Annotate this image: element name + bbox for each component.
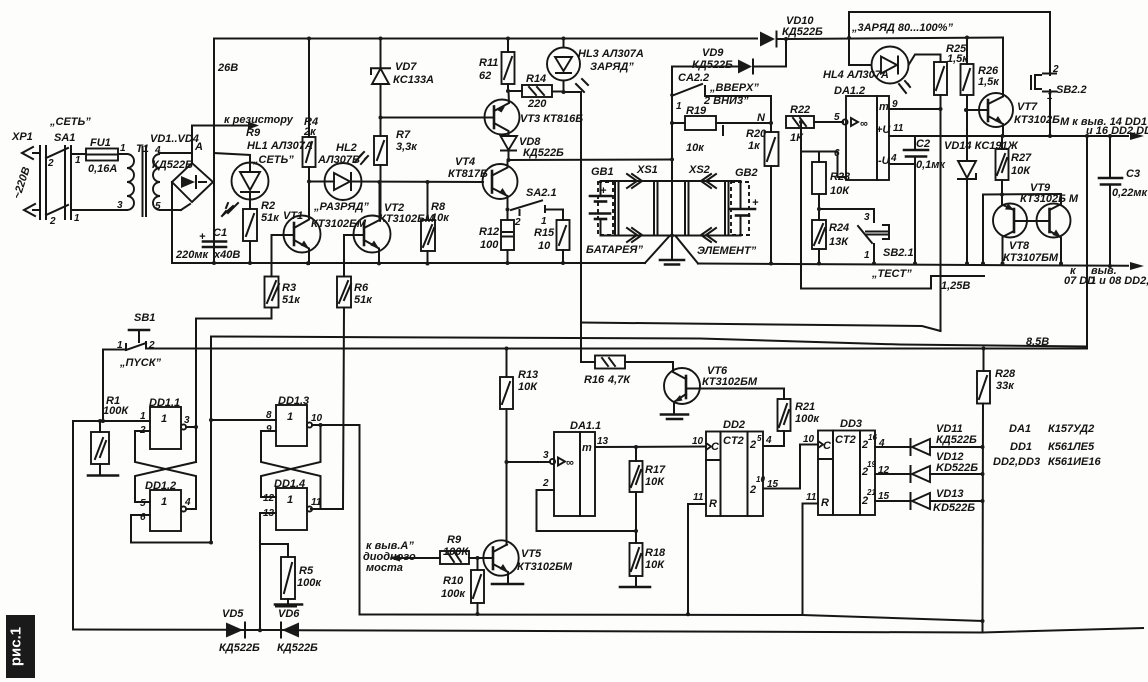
wire left vertical to bottom rail — [72, 421, 74, 630]
svg-text:„3APЯД 80...100%”: „3APЯД 80...100%” — [851, 22, 953, 34]
svg-text:0,1мк: 0,1мк — [916, 159, 946, 171]
svg-text:R5: R5 — [299, 565, 314, 577]
svg-text:10к: 10к — [686, 142, 705, 154]
svg-text:51к: 51к — [282, 294, 301, 306]
pin 4 wire — [889, 153, 915, 164]
resistor R9 100К — [440, 534, 493, 564]
resistor R23 10К — [812, 152, 850, 221]
svg-text:CA2.2: CA2.2 — [678, 72, 709, 84]
svg-text:11: 11 — [693, 492, 704, 503]
wire supply drop x1087 — [1086, 136, 1088, 348]
wire R23 link from pin5 line — [800, 122, 802, 289]
wire DA1.1 pin3 input — [507, 461, 551, 463]
svg-text:DA1: DA1 — [1009, 423, 1031, 435]
wire DA1.1 pin13 output to DD2 — [595, 446, 706, 449]
wire VD8 node to battery block — [509, 159, 673, 162]
resistor R18 10К — [620, 531, 666, 587]
op-amp DA1.1 — [542, 420, 609, 516]
resistor R5 100к — [260, 544, 322, 605]
svg-text:1,25B: 1,25B — [941, 280, 970, 292]
svg-text:1: 1 — [74, 213, 80, 224]
transistor VT7 КТ3102БМ — [967, 38, 1060, 137]
resistor R8 10к — [421, 182, 450, 264]
svg-text:1: 1 — [161, 413, 167, 425]
svg-text:R28: R28 — [995, 368, 1016, 380]
zener VD14 КС191Ж — [944, 140, 1019, 264]
gate DD1.1 — [139, 397, 196, 449]
svg-text:2: 2 — [749, 439, 756, 451]
connector XS2 — [685, 164, 729, 242]
label ЗАРЯД 80...100% box — [849, 12, 1050, 70]
resistor R16 4,7К — [581, 323, 686, 387]
svg-text:моcтa: моcтa — [366, 562, 403, 574]
resistor R17 10К — [630, 447, 667, 531]
LED HL1 АЛ307А "СЕТЬ" — [214, 140, 313, 216]
resistor R11 62 — [479, 39, 515, 92]
svg-text:26B: 26B — [217, 62, 238, 74]
svg-text:VT3 КТ816Б: VT3 КТ816Б — [520, 113, 583, 125]
svg-text:21: 21 — [866, 488, 876, 497]
svg-text:1: 1 — [287, 494, 293, 506]
svg-text:m: m — [879, 101, 889, 113]
svg-text:DD3: DD3 — [840, 418, 862, 430]
pin 9 wire — [889, 99, 941, 110]
wire DD3 R pin down — [802, 504, 804, 616]
svg-text:R14: R14 — [526, 73, 546, 85]
ground symbol battery block — [660, 236, 684, 265]
switch SA2.1 — [511, 187, 563, 228]
transistor VT2 КТ3102БМ — [344, 182, 435, 264]
svg-text:К561ЛE5: К561ЛE5 — [1048, 441, 1095, 453]
svg-text:VD7: VD7 — [395, 61, 417, 73]
svg-text:11: 11 — [806, 492, 817, 503]
connector XP1 — [11, 131, 46, 219]
svg-text:4: 4 — [765, 435, 772, 446]
svg-text:5: 5 — [834, 112, 840, 123]
svg-text:100К: 100К — [103, 405, 129, 417]
transistor VT8 КТ3107БМ — [993, 195, 1059, 265]
svg-text:FU1: FU1 — [90, 137, 111, 149]
label к выв.А диодного моста — [363, 540, 416, 574]
gate DD1.2 — [140, 480, 191, 531]
svg-text:13К: 13К — [829, 236, 849, 248]
svg-text:10К: 10К — [518, 381, 538, 393]
svg-text:9: 9 — [266, 424, 272, 435]
resistor R25 1,5к — [934, 43, 969, 109]
gate DD1.3 — [266, 395, 343, 446]
svg-text:„BBEPX”: „BBEPX” — [709, 82, 759, 94]
resistor R27 10К — [996, 136, 1033, 195]
switch SA2.2 — [670, 72, 771, 123]
ground rail top section — [172, 262, 645, 264]
pin 11 supply wire to right — [889, 123, 1144, 140]
wire TEST lower link — [801, 276, 931, 289]
svg-text:N: N — [757, 112, 766, 124]
resistor R7 3,3к — [374, 129, 418, 218]
capacitor C2 0,1м — [904, 136, 946, 171]
svg-text:VD13: VD13 — [936, 488, 964, 500]
svg-text:220мк: 220мк — [175, 249, 209, 261]
svg-text:R18: R18 — [645, 547, 666, 559]
svg-text:CT2: CT2 — [723, 435, 744, 447]
svg-text:R13: R13 — [518, 369, 538, 381]
wire DD1.3 pin9 cross-couple — [261, 431, 321, 509]
op-amp DA1.2 — [834, 85, 891, 180]
svg-text:6: 6 — [140, 512, 146, 523]
svg-text:33к: 33к — [996, 380, 1015, 392]
svg-text:R21: R21 — [795, 401, 815, 413]
wire bottom rail D — [360, 615, 983, 622]
wire R6/pin10 node to rail D drop — [343, 425, 360, 615]
svg-text:11: 11 — [893, 123, 904, 134]
svg-text:3: 3 — [117, 200, 123, 211]
svg-text:1: 1 — [75, 155, 81, 166]
svg-text:2: 2 — [47, 158, 54, 169]
svg-text:4,7К: 4,7К — [607, 374, 631, 386]
wire R1 node to DD1.1 pin1 — [73, 420, 150, 422]
svg-text:R7: R7 — [396, 129, 411, 141]
svg-text:HL3 АЛ307A: HL3 АЛ307A — [578, 48, 644, 60]
svg-text:КТ3102Б: КТ3102Б — [1014, 114, 1060, 126]
svg-text:∞: ∞ — [566, 457, 574, 469]
resistor R22 1к — [786, 104, 843, 144]
wire R13 to VT5 collector — [506, 462, 508, 545]
svg-text:10К: 10К — [1011, 165, 1031, 177]
svg-text:SB1: SB1 — [134, 312, 155, 324]
resistor R6 51к — [337, 235, 373, 509]
transistor VT5 КТ3102БМ — [483, 540, 573, 584]
svg-text:„PA3PЯД”: „PA3PЯД” — [313, 201, 369, 213]
svg-text:5: 5 — [140, 498, 146, 509]
svg-text:+U: +U — [876, 124, 891, 136]
svg-text:„ПYCК”: „ПYCК” — [119, 357, 161, 369]
svg-text:2: 2 — [49, 216, 56, 227]
connector XS1 — [615, 164, 658, 242]
svg-text:100: 100 — [480, 239, 499, 251]
svg-text:2: 2 — [514, 217, 521, 228]
svg-text:10: 10 — [756, 475, 765, 484]
svg-text:VD9: VD9 — [702, 47, 724, 59]
svg-text:2: 2 — [542, 478, 549, 489]
svg-text:КТ3102БM: КТ3102БM — [517, 561, 573, 573]
resistor R14 220 — [508, 73, 564, 110]
svg-text:XS2: XS2 — [688, 164, 710, 176]
svg-text:DA1.1: DA1.1 — [570, 420, 601, 432]
gate DD1.4 — [263, 478, 322, 530]
pushbutton SB2.1 "ТЕСТ" — [858, 209, 914, 280]
svg-text:и 16 DD2,DD: и 16 DD2,DD — [1086, 125, 1148, 137]
capacitor C3 0,22мк — [1099, 136, 1148, 266]
transistor VT6 КТ3102БМ — [661, 365, 784, 419]
wire center conductor SA2.2 pole down through connector — [671, 67, 673, 236]
svg-text:10: 10 — [538, 240, 551, 252]
svg-text:SB2.1: SB2.1 — [883, 247, 914, 259]
wire R3 link down to pin3 node — [195, 319, 197, 463]
svg-text:0,16A: 0,16A — [88, 163, 117, 175]
svg-text:„TECT”: „TECT” — [871, 268, 912, 280]
svg-text:1: 1 — [864, 250, 870, 261]
diode VD11 КД522Б — [911, 423, 983, 455]
wire pin11 link to R6 vertical — [321, 508, 344, 510]
diode VD9 КД522Б — [672, 39, 786, 74]
wire C2/pin4 to ground rail — [914, 164, 916, 264]
resistor R15 10 — [534, 220, 570, 263]
svg-text:R11: R11 — [479, 57, 498, 69]
resistor R2 51к — [243, 200, 280, 263]
svg-text:ЭЛEMEHT”: ЭЛEMEHT” — [697, 245, 757, 257]
svg-text:10: 10 — [692, 436, 704, 447]
wire bridge left corner to ground rail — [171, 182, 173, 263]
resistor R26 1,5к — [961, 38, 1001, 161]
svg-text:A: A — [194, 141, 203, 153]
svg-text:10к: 10к — [431, 212, 450, 224]
LED HL2 АЛ307В "РАЗРЯД" — [309, 142, 483, 213]
transistor VT9 КТ3102БМ — [1014, 182, 1079, 264]
wire DD1.4 pin13 chain down — [260, 513, 276, 631]
svg-text:5: 5 — [757, 434, 762, 443]
svg-text:10: 10 — [311, 413, 323, 424]
connector top bus — [601, 180, 741, 182]
svg-text:3,3к: 3,3к — [396, 141, 418, 153]
diode VD5 КД522Б — [219, 608, 260, 654]
svg-text:3: 3 — [184, 415, 190, 426]
svg-text:62: 62 — [479, 70, 491, 82]
svg-text:БATAPEЯ”: БATAPEЯ” — [586, 244, 643, 256]
svg-text:К561ИE16: К561ИE16 — [1048, 456, 1101, 468]
svg-text:3: 3 — [543, 450, 549, 461]
wire rail after VD10 — [786, 38, 1003, 40]
svg-text:-U: -U — [878, 155, 891, 167]
resistor R3 51к — [196, 235, 301, 319]
svg-text:12: 12 — [263, 493, 275, 504]
svg-text:R3: R3 — [282, 282, 296, 294]
wire reference vertical x941 — [940, 95, 942, 331]
wire slant links bus to ground rail — [645, 237, 669, 264]
svg-text:R23: R23 — [830, 171, 850, 183]
svg-text:DD2,DD3: DD2,DD3 — [993, 456, 1040, 468]
wire R23/R24/SB2.1 node — [819, 208, 874, 210]
svg-text:0,22мк: 0,22мк — [1112, 187, 1148, 199]
svg-text:4: 4 — [890, 153, 897, 164]
resistor R24 13К — [812, 220, 849, 264]
svg-text:XP1: XP1 — [11, 131, 33, 143]
wire DD1.2 pin6 loop — [131, 515, 211, 543]
svg-text:1: 1 — [140, 411, 146, 422]
svg-text:КД522Б: КД522Б — [152, 159, 193, 171]
svg-text:m: m — [582, 442, 592, 454]
wire rail E right extension — [983, 628, 1144, 633]
svg-text:10К: 10К — [830, 185, 850, 197]
svg-text:51к: 51к — [261, 212, 280, 224]
svg-text:C: C — [823, 440, 832, 452]
resistor R28 33к — [977, 349, 1016, 633]
svg-text:рис.1: рис.1 — [8, 627, 25, 666]
wire DD2 R pin down — [687, 504, 689, 614]
resistor R4 2к — [303, 39, 319, 182]
wire rail B drop x211 — [210, 337, 212, 543]
wire rail B — [211, 337, 1087, 347]
svg-text:КД522Б: КД522Б — [523, 147, 564, 159]
svg-text:DD1: DD1 — [1010, 441, 1032, 453]
svg-text:1: 1 — [287, 411, 293, 423]
svg-text:х40B: х40B — [213, 249, 240, 261]
svg-text:HL2: HL2 — [336, 142, 357, 154]
resistor R12 100 — [479, 210, 514, 264]
resistor R13 10К — [500, 349, 538, 463]
svg-text:KD522Б: KD522Б — [936, 462, 978, 474]
capacitor C1 220мк x40В — [175, 227, 240, 261]
svg-text:19: 19 — [867, 460, 876, 469]
svg-text:VT5: VT5 — [521, 548, 542, 560]
transformer T1 — [117, 143, 192, 216]
svg-text:8,5B: 8,5B — [1026, 336, 1049, 348]
svg-text:C1: C1 — [213, 227, 227, 239]
svg-text:C3: C3 — [1126, 168, 1140, 180]
svg-text:GB1: GB1 — [591, 166, 614, 178]
svg-text:100к: 100к — [297, 577, 322, 589]
svg-text:220: 220 — [527, 98, 547, 110]
svg-text:VT7: VT7 — [1017, 101, 1038, 113]
svg-text:1: 1 — [676, 101, 682, 112]
svg-text:КC133A: КC133A — [393, 74, 434, 86]
svg-text:1: 1 — [120, 143, 126, 154]
wire "к резистору R9" — [192, 114, 294, 139]
transistor VT1 КТ3102БМ — [272, 182, 367, 265]
svg-text:11: 11 — [311, 497, 322, 508]
svg-text:10К: 10К — [645, 476, 665, 488]
pushbutton SB2.2 — [1031, 64, 1087, 136]
svg-text:1: 1 — [541, 216, 547, 227]
fuse FU1 0,16A — [86, 137, 127, 175]
wire rail A (reference to 1,25V) — [581, 323, 941, 332]
svg-text:C: C — [711, 441, 720, 453]
bridge rectifier VD1..VD4 — [150, 133, 213, 202]
resistor R21 100К — [778, 389, 821, 447]
diode VD6 КД522Б — [276, 607, 318, 655]
svg-text:VT4: VT4 — [455, 156, 475, 168]
switch SA1 "СЕТЬ" — [46, 116, 127, 227]
svg-text:R24: R24 — [829, 222, 849, 234]
connector bottom bus — [601, 235, 741, 237]
diode VD10 КД522Б — [760, 15, 823, 47]
svg-text:1к: 1к — [748, 140, 761, 152]
svg-text:SB2.2: SB2.2 — [1056, 84, 1087, 96]
battery GB2 — [730, 167, 759, 235]
svg-text:1 и 08 DD2,D.: 1 и 08 DD2,D. — [1090, 275, 1148, 287]
svg-text:R27: R27 — [1011, 152, 1032, 164]
svg-text:КД522Б: КД522Б — [936, 434, 977, 446]
wire DD1.1 pin3 cross-couple — [135, 462, 196, 502]
svg-text:∞: ∞ — [860, 118, 868, 130]
pushbutton SB1 "ПУСК" — [103, 312, 211, 421]
wire rail C 8,5V — [146, 347, 1087, 349]
svg-text:КД522Б: КД522Б — [219, 642, 260, 654]
svg-text:SA2.1: SA2.1 — [526, 187, 557, 199]
svg-text:КД522Б: КД522Б — [692, 59, 733, 71]
parts list — [993, 423, 1101, 468]
svg-text:R10: R10 — [443, 575, 464, 587]
svg-text:VD14 КC191Ж: VD14 КC191Ж — [944, 140, 1019, 152]
svg-text:C2: C2 — [916, 138, 930, 150]
svg-text:8: 8 — [266, 410, 272, 421]
transistor VT4 КТ817Б — [448, 156, 518, 210]
svg-text:КД522Б: КД522Б — [277, 642, 318, 654]
svg-text:R2: R2 — [261, 200, 275, 212]
svg-text:ЗАPЯД”: ЗАPЯД” — [590, 61, 634, 73]
svg-text:SA1: SA1 — [54, 132, 75, 144]
resistor R1 100К — [88, 395, 129, 476]
counter DD2 СТ2 — [688, 419, 818, 516]
zener VD7 КС133А — [371, 39, 434, 137]
svg-text:10К: 10К — [645, 559, 665, 571]
svg-text:+: + — [752, 197, 759, 209]
LED HL3 АЛ307А "ЗАРЯД" — [547, 39, 644, 93]
svg-text:1: 1 — [161, 496, 167, 508]
svg-text:CT2: CT2 — [835, 434, 856, 446]
diode VD12 КД522Б — [911, 451, 983, 482]
svg-text:VD6: VD6 — [278, 608, 300, 620]
LED HL4 АЛ307А — [823, 38, 941, 93]
svg-text:КТ3107БM: КТ3107БM — [1003, 252, 1059, 264]
svg-text:R9: R9 — [447, 534, 462, 546]
svg-text:KD522Б: KD522Б — [933, 502, 975, 514]
wire pin8 link — [211, 419, 276, 421]
svg-text:2: 2 — [749, 484, 756, 496]
wire HL3/R14 junction to x581 vertical — [564, 92, 581, 323]
svg-text:КТ3102БM: КТ3102БM — [702, 376, 758, 388]
label 1,25В — [931, 276, 984, 292]
svg-text:13: 13 — [597, 436, 609, 447]
diode VD13 КД522Б — [911, 488, 983, 514]
svg-text:100к: 100к — [795, 413, 820, 425]
wire DD1.1 pin2 cross-couple — [135, 431, 196, 509]
svg-text:DD2: DD2 — [723, 419, 745, 431]
battery GB1 — [590, 166, 614, 235]
svg-text:4: 4 — [184, 497, 191, 508]
svg-text:R16: R16 — [584, 374, 605, 386]
wire VD7/R7 to VT3 base — [381, 117, 495, 119]
svg-text:R: R — [821, 497, 829, 509]
resistor R19 10к — [672, 105, 771, 154]
svg-text:16: 16 — [868, 433, 877, 442]
svg-text:КД522Б: КД522Б — [782, 26, 823, 38]
svg-text:R15: R15 — [534, 227, 555, 239]
wire to R9 with arrow — [389, 555, 440, 562]
resistor R20 1к — [746, 123, 779, 264]
wire DD1.3 pin10 cross-couple — [261, 425, 321, 497]
svg-text:1,5к: 1,5к — [978, 76, 1000, 88]
wire bottom rail E — [73, 630, 983, 633]
transistor VT3 КТ816Б — [485, 91, 584, 136]
svg-text:VT8: VT8 — [1009, 240, 1030, 252]
wire bridge top to rail — [191, 126, 193, 164]
svg-text:10: 10 — [803, 434, 815, 445]
svg-text:51к: 51к — [354, 294, 373, 306]
svg-text:„CETЬ”: „CETЬ” — [49, 116, 91, 128]
svg-text:VD5: VD5 — [222, 608, 244, 620]
svg-text:К157УД2: К157УД2 — [1048, 423, 1094, 435]
wire VT8/VT9 collector link — [983, 194, 1061, 264]
svg-text:XS1: XS1 — [636, 164, 658, 176]
svg-text:3: 3 — [864, 212, 870, 223]
svg-text:R22: R22 — [790, 104, 810, 116]
svg-text:100к: 100к — [441, 588, 466, 600]
diode VD8 КД522Б — [501, 136, 565, 160]
svg-text:GB2: GB2 — [735, 167, 758, 179]
svg-text:R12: R12 — [479, 226, 499, 238]
svg-text:к резистору: к резистору — [224, 114, 294, 126]
svg-text:R6: R6 — [354, 282, 369, 294]
